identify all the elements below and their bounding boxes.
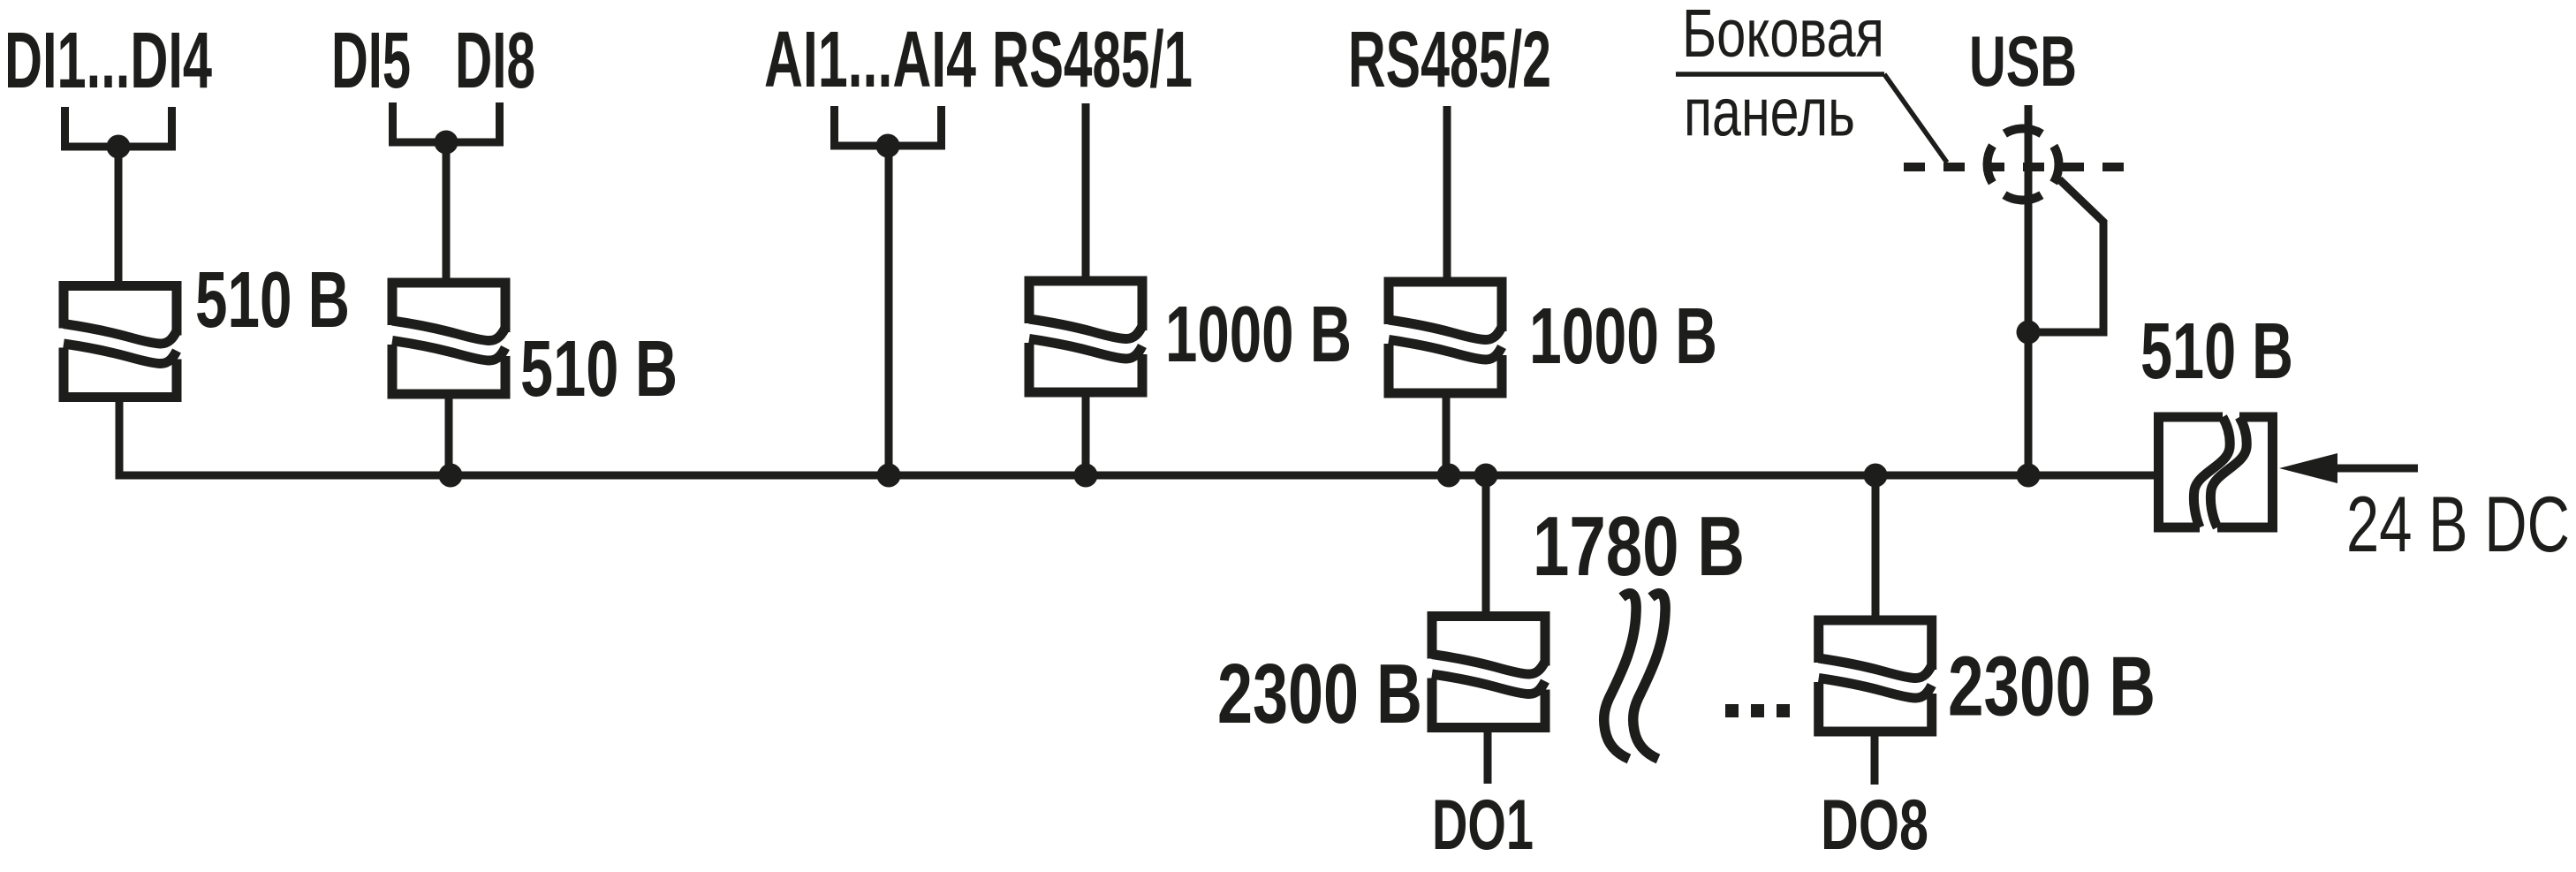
wire DI1...DI4 to barrier <box>115 147 123 283</box>
note underline <box>1676 72 1884 77</box>
svg-text:510 В: 510 В <box>520 325 678 413</box>
junction dot DO1 bus <box>1474 464 1498 488</box>
dashed side-panel boundary line <box>1904 163 2129 171</box>
svg-text:1780 В: 1780 В <box>1533 499 1745 594</box>
svg-text:1000 В: 1000 В <box>1165 291 1352 379</box>
junction dot AI bus <box>877 464 901 488</box>
wire RS485/2 to barrier <box>1443 106 1451 279</box>
wire RS485/1 to barrier <box>1082 103 1090 278</box>
wire barrier RS485/1 to bus <box>1082 395 1090 475</box>
ellipsis dots between DO1 and DO8 <box>1725 704 1739 717</box>
terminal bracket DI5/DI8 <box>393 102 500 142</box>
svg-text:2300 В: 2300 В <box>1948 640 2156 734</box>
junction dot DI5 bus <box>439 464 463 488</box>
svg-text:DO8: DO8 <box>1821 785 1928 865</box>
break wave right (1780 V group) <box>1633 594 1665 759</box>
junction node DI5/DI8 <box>435 131 458 155</box>
wire USB to bus <box>2025 105 2033 475</box>
svg-text:2300 В: 2300 В <box>1217 647 1422 741</box>
wire barrier DO1 down <box>1484 732 1492 784</box>
isolation barrier 1000 V (RS485/1) <box>1029 281 1142 392</box>
dashed circle USB connector <box>1988 129 2059 201</box>
svg-text:USB: USB <box>1969 22 2077 102</box>
svg-text:AI1...AI4: AI1...AI4 <box>764 16 976 104</box>
svg-text:RS485/2: RS485/2 <box>1348 16 1551 104</box>
svg-text:24 В DC: 24 В DC <box>2346 480 2570 568</box>
wire AI1...AI4 to bus <box>885 146 893 475</box>
wire bus to barrier DO8 <box>1872 475 1880 616</box>
isolation barrier 1000 V (RS485/2) <box>1389 282 1502 393</box>
wire bus to barrier DO1 <box>1482 475 1490 613</box>
isolation barrier 2300 V (DO1) <box>1432 617 1545 728</box>
junction node DI1...DI4 <box>107 135 131 159</box>
svg-text:RS485/1: RS485/1 <box>992 16 1193 104</box>
svg-text:510 В: 510 В <box>2140 307 2293 396</box>
junction node AI1...AI4 <box>876 134 900 158</box>
svg-text:DI1...DI4: DI1...DI4 <box>4 17 212 105</box>
terminal bracket AI1...AI4 <box>835 106 942 146</box>
arrow shaft 24 V DC input <box>2332 465 2418 473</box>
isolation barrier 510 V (power input) <box>2159 417 2273 527</box>
junction dot USB branch <box>2017 321 2041 345</box>
svg-text:Боковая: Боковая <box>1682 0 1884 72</box>
isolation barrier 510 V (DI5/DI8) <box>392 283 505 394</box>
wire barrier RS485/2 to bus <box>1443 396 1451 475</box>
svg-text:DO1: DO1 <box>1432 785 1534 865</box>
svg-text:DI5: DI5 <box>331 17 411 105</box>
terminal bracket DI1...DI4 <box>65 107 172 147</box>
junction dot DO8 bus <box>1864 464 1888 488</box>
wire barrier DO8 down <box>1871 736 1879 785</box>
junction dot RS485/1 bus <box>1074 464 1098 488</box>
svg-text:DI8: DI8 <box>455 17 535 105</box>
junction dot RS485/2 bus <box>1437 464 1461 488</box>
isolation barrier 2300 V (DO8) <box>1819 620 1932 732</box>
junction dot USB bus <box>2017 464 2041 488</box>
note leader line <box>1884 74 1947 163</box>
arrow head 24 V DC input <box>2279 453 2337 483</box>
wire main power bus <box>119 401 2154 475</box>
isolation barrier 510 V (DI1...DI4) <box>64 286 177 398</box>
svg-text:панель: панель <box>1684 75 1855 151</box>
svg-text:1000 В: 1000 В <box>1529 292 1717 381</box>
wire barrier DI5/DI8 to bus <box>445 397 453 475</box>
wire DI5/DI8 to barrier <box>443 142 451 280</box>
wire USB connector branch <box>2028 179 2103 332</box>
svg-text:510 В: 510 В <box>195 256 350 345</box>
break wave left (1780 V group) <box>1604 594 1636 759</box>
